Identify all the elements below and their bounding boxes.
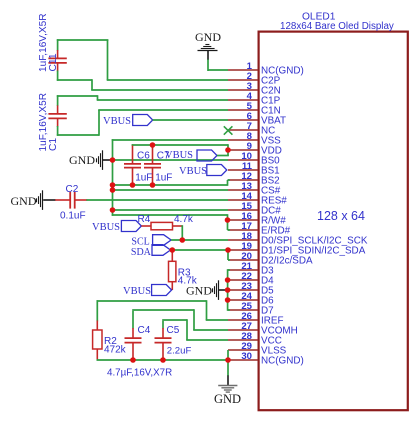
svg-text:0.1uF: 0.1uF — [60, 210, 86, 221]
label OLED1 — [302, 12, 336, 23]
supply flag VBUS (pin 6 VBAT) — [103, 115, 153, 128]
wire pin19 to pin20 — [228, 249, 230, 260]
svg-text:GND: GND — [11, 194, 37, 208]
wire GND rail to pin15 DC# — [113, 209, 229, 211]
ground GND bottom — [214, 360, 241, 406]
pin 30 NC(GND) — [228, 351, 304, 367]
supply flag VBUS (R3) — [123, 285, 172, 297]
svg-text:128x64 Bare Oled Display: 128x64 Bare Oled Display — [280, 21, 394, 32]
wire GND rail to pins16 17 — [112, 214, 230, 230]
name label R3 — [178, 267, 191, 278]
svg-text:C11: C11 — [48, 53, 59, 71]
capacitor C6 — [124, 146, 141, 186]
name label C2 — [66, 184, 79, 195]
svg-text:GND: GND — [69, 153, 95, 167]
wire pin8 VSS to GND rail — [112, 139, 228, 216]
pin 4 C1P — [228, 91, 281, 107]
junction pin9 VDD — [225, 147, 231, 153]
svg-text:GND: GND — [214, 392, 241, 406]
name label C11 — [48, 53, 59, 71]
wire pins21-25 ground bus — [228, 269, 230, 311]
resistor R4 — [141, 222, 182, 229]
wire SDA to pin19 — [171, 249, 229, 251]
value label 4.7uF,16V,X7R — [107, 368, 172, 379]
svg-text:128 x 64: 128 x 64 — [317, 209, 365, 223]
wire C1 bottom to pin5 — [57, 110, 228, 136]
pin 7 NC — [228, 121, 275, 137]
value label R3 4.7k — [178, 276, 198, 287]
pin 19 D1/SPI_SDIN/I2C_SDA — [228, 241, 366, 257]
pin 15 DC# — [228, 201, 281, 217]
wire bottom ground rail — [97, 359, 229, 361]
wire C11 bottom to pin3 — [57, 71, 228, 91]
supply flag VBUS (R4) — [92, 221, 141, 233]
pin 2 C2P — [228, 71, 281, 87]
svg-text:NC(GND): NC(GND) — [261, 356, 304, 367]
pin 22 D4 — [228, 271, 274, 287]
pin 23 D5 — [228, 281, 274, 297]
ground GND top — [195, 30, 221, 60]
pin 5 C1N — [228, 101, 281, 117]
value label R4 4.7k — [174, 214, 194, 225]
resistor R3 — [169, 250, 176, 290]
value label C2 0.1uF — [60, 210, 86, 221]
name label C4 — [138, 325, 151, 336]
ground GND at C2 — [11, 190, 56, 210]
pin 6 VBAT — [228, 111, 286, 127]
pin 20 D2/I2c/SDA — [228, 251, 313, 267]
svg-text:R4: R4 — [138, 214, 151, 225]
supply flag VBUS (pin 9 VDD) — [165, 150, 217, 161]
capacitor C1 — [48, 105, 66, 127]
svg-text:1uF: 1uF — [135, 172, 152, 183]
junction rail at row185 — [110, 182, 116, 188]
pin 29 VLSS — [228, 341, 287, 357]
wire C6 C7 tops to pin9 VDD — [132, 144, 228, 156]
junction C4 bottom — [130, 357, 136, 363]
capacitor C11 — [48, 50, 66, 72]
pin 21 D3 — [228, 261, 274, 277]
svg-text:GND: GND — [186, 284, 212, 298]
junction pin22 — [225, 277, 231, 283]
svg-text:C2: C2 — [66, 184, 79, 195]
capacitor C2 — [55, 192, 87, 209]
name label R2 — [104, 336, 117, 347]
svg-text:VBUS: VBUS — [179, 166, 207, 177]
junction pin19 — [225, 247, 231, 253]
supply flag SDA — [131, 245, 171, 258]
pin 11 BS1 — [228, 161, 280, 177]
resistor R2 — [93, 321, 102, 361]
junction GND rail at pin10 row — [110, 157, 116, 163]
pin 18 D0/SPI_SCLK/I2C_SCK — [228, 231, 368, 247]
svg-text:SDA: SDA — [131, 247, 152, 258]
junction R3 on SDA row — [170, 247, 176, 253]
no-connect cross pin 7 — [224, 126, 233, 134]
pin 3 C2N — [228, 81, 281, 97]
pin 8 VSS — [228, 131, 281, 147]
label 128 x 64 — [317, 209, 365, 223]
svg-text:30: 30 — [241, 351, 252, 362]
pin 14 RES# — [228, 191, 287, 207]
svg-text:C5: C5 — [167, 325, 180, 336]
value label C1 1uF,16V,X5R — [38, 93, 49, 152]
ground GND mid-left — [69, 150, 112, 170]
name label C7 — [157, 151, 170, 162]
svg-text:2.2uF: 2.2uF — [167, 346, 192, 357]
value label C7 1uF — [155, 172, 172, 183]
ground GND right-mid — [186, 280, 227, 300]
svg-text:1uF: 1uF — [155, 172, 172, 183]
junction pin23 — [225, 287, 231, 293]
svg-text:VBUS: VBUS — [92, 222, 120, 233]
label 128x64 Bare Oled Display — [280, 21, 394, 32]
svg-text:472k: 472k — [104, 345, 127, 356]
pin 26 IREF — [228, 311, 284, 327]
junction C6 bottom — [130, 182, 136, 188]
junction rail at row190 — [110, 187, 116, 193]
pin 17 E/RD# — [228, 221, 291, 237]
wire VBUS flag to pin9 — [217, 155, 229, 157]
junction C7 bottom — [150, 182, 156, 188]
svg-text:VBUS: VBUS — [103, 116, 131, 127]
svg-text:C6: C6 — [137, 151, 150, 162]
junction R4 on SCL row — [180, 237, 186, 243]
junction pin30 rail — [225, 357, 231, 363]
name label C6 — [137, 151, 150, 162]
wire R4 to SCL row — [181, 225, 183, 241]
pin 25 D7 — [228, 301, 274, 317]
svg-text:C4: C4 — [138, 325, 151, 336]
pin 1 NC(GND) — [228, 61, 304, 77]
wire GND rail to pin12 BS2 — [113, 180, 231, 186]
value label C11 1uF,16V,X5R — [38, 13, 49, 72]
name label C5 — [167, 325, 180, 336]
wire pin1 to GND — [208, 59, 228, 71]
name label C1 — [48, 138, 59, 151]
value label C5 2.2uF — [167, 346, 192, 357]
pin 10 BS0 — [228, 151, 280, 167]
wire VBUS to pin6 — [153, 119, 228, 121]
svg-text:C1: C1 — [48, 138, 59, 151]
svg-text:4.7k: 4.7k — [174, 214, 194, 225]
wire C11 top to pin2 — [57, 39, 228, 80]
junction C7 top — [150, 142, 156, 148]
wire C5 top to pin28 VCC — [162, 319, 228, 340]
supply flag SCL — [131, 235, 171, 248]
junction pin16 R/W# — [225, 217, 231, 223]
capacitor C4 — [125, 328, 142, 360]
wire pin29 VLSS down to rail — [227, 350, 229, 360]
svg-text:GND: GND — [195, 30, 221, 44]
capacitor C7 — [144, 146, 161, 186]
wire R2 top to pin26 IREF — [97, 300, 229, 321]
junction pin24 — [225, 297, 231, 303]
supply flag VBUS (pin 11 BS1) — [179, 165, 227, 177]
wire GND rail to pin10 — [113, 159, 229, 161]
junction rail at row210 — [110, 207, 116, 213]
pin 28 VCC — [228, 331, 282, 347]
wire C2 to pin14 RES# — [86, 199, 228, 201]
wire C4 top to pin27 VCOMH — [132, 309, 228, 330]
pin 12 BS2 — [228, 171, 280, 187]
pin 27 VCOMH — [228, 321, 298, 337]
svg-text:VBUS: VBUS — [123, 286, 151, 297]
pin 9 VDD — [228, 141, 282, 157]
svg-text:VBUS: VBUS — [165, 150, 193, 161]
pin 16 R/W# — [228, 211, 286, 227]
wire SCL to pin18 — [171, 239, 228, 241]
pin 13 CS# — [228, 181, 281, 197]
OLED display box OLED1 — [259, 32, 408, 411]
junction C5 bottom — [160, 357, 166, 363]
wire C1 top to pin4 — [57, 95, 228, 106]
name label R4 — [138, 214, 151, 225]
value label C6 1uF — [135, 172, 152, 183]
pin 24 D6 — [228, 291, 274, 307]
capacitor C5 — [155, 328, 172, 360]
wire GND rail to pin13 CS# — [113, 189, 229, 191]
svg-text:4.7µF,16V,X7R: 4.7µF,16V,X7R — [107, 368, 172, 379]
value label R2 472k — [104, 345, 127, 356]
